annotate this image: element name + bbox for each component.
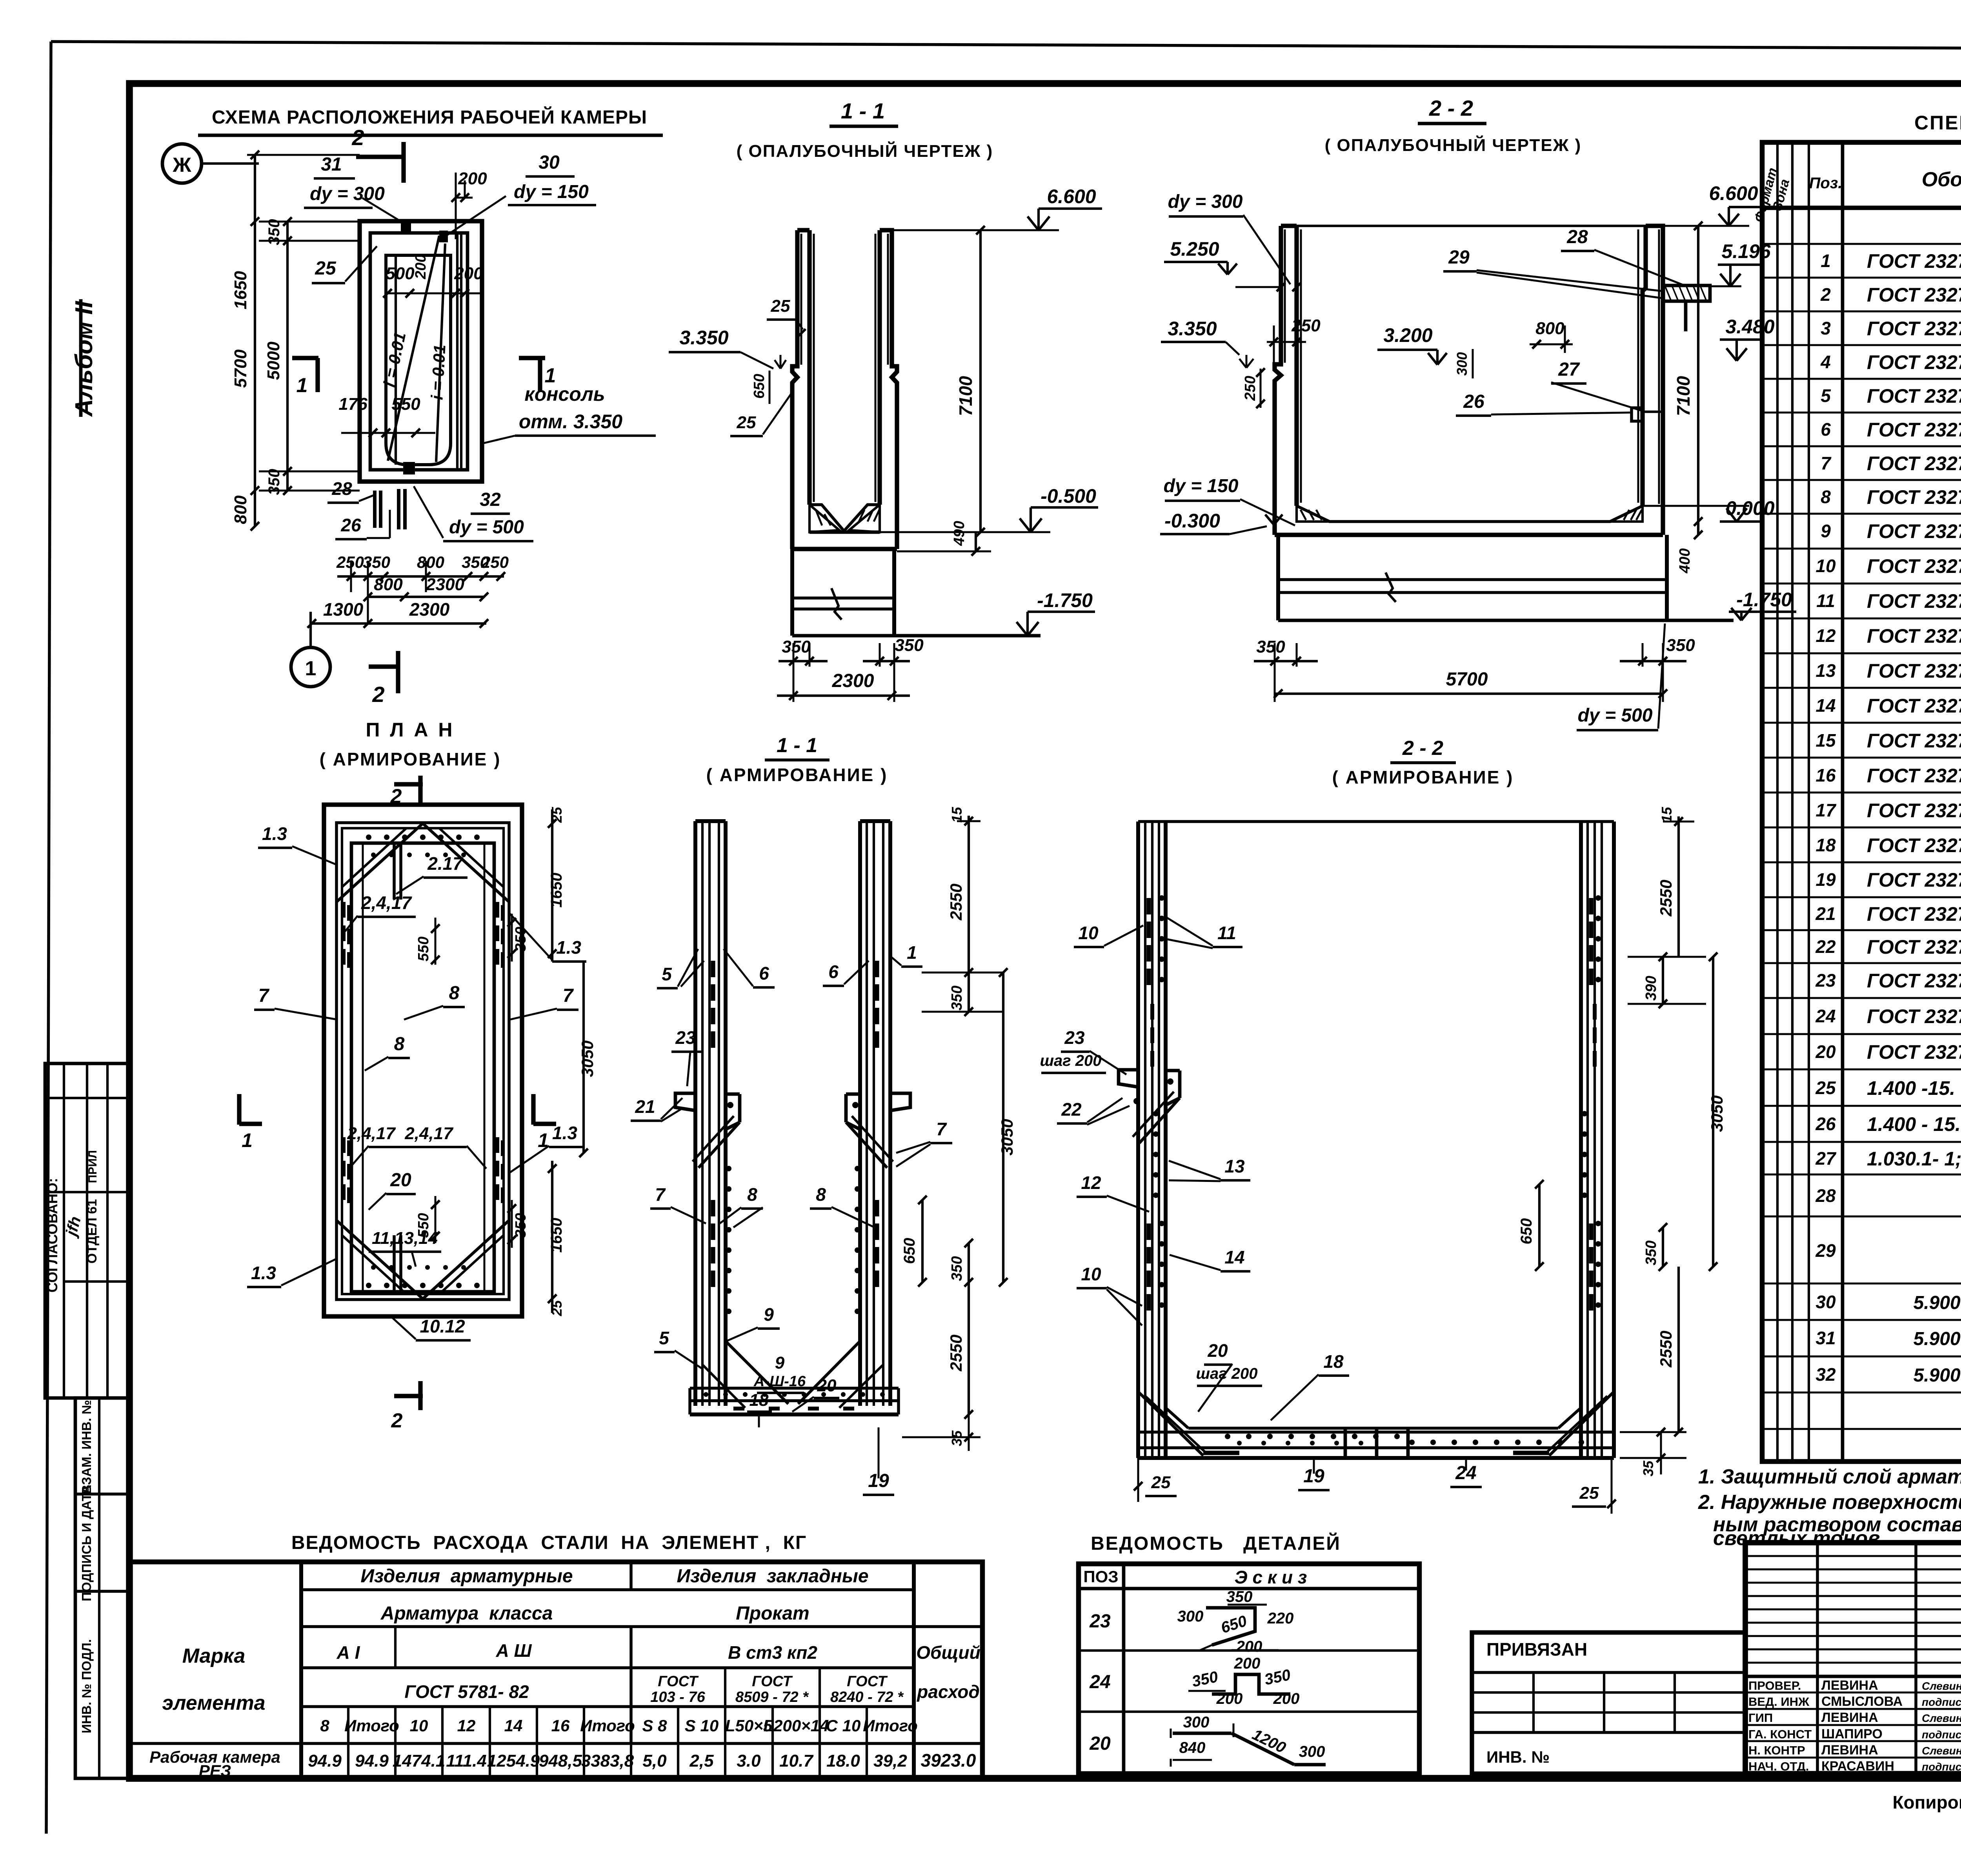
- svg-text:103 - 76: 103 - 76: [650, 1689, 705, 1705]
- privyazan box: [1472, 1632, 1745, 1774]
- svg-text:1.3: 1.3: [251, 1263, 276, 1283]
- svg-text:25: 25: [737, 413, 756, 432]
- spec rows: [1762, 243, 1961, 245]
- svg-text:ПОДПИСЬ И ДАТА: ПОДПИСЬ И ДАТА: [79, 1485, 94, 1601]
- slope line i=0.01 right: [436, 244, 445, 462]
- svg-text:подпись: подпись: [1922, 1729, 1961, 1741]
- svg-text:1: 1: [1821, 251, 1831, 271]
- svg-text:20: 20: [817, 1376, 837, 1395]
- svg-text:350: 350: [1256, 637, 1285, 656]
- svg-text:КРАСАВИН: КРАСАВИН: [1821, 1759, 1894, 1774]
- svg-text:( АРМИРОВАНИЕ ): ( АРМИРОВАНИЕ ): [706, 765, 888, 785]
- F dim 35: [1660, 1432, 1662, 1474]
- svg-text:ГОСТ 23279 - 85: ГОСТ 23279 - 85: [1867, 590, 1961, 612]
- svg-text:5700: 5700: [1446, 669, 1488, 690]
- svg-text:5.900-2: 5.900-2: [1914, 1292, 1961, 1313]
- svg-text:26: 26: [340, 515, 361, 535]
- svg-text:1650: 1650: [231, 271, 250, 309]
- svg-text:2 - 2: 2 - 2: [1402, 737, 1443, 760]
- svg-text:220: 220: [1267, 1610, 1294, 1627]
- svg-text:ЛЕВИНА: ЛЕВИНА: [1821, 1678, 1878, 1693]
- svg-text:Итого: Итого: [580, 1716, 635, 1735]
- svg-text:1300: 1300: [323, 599, 364, 620]
- svg-text:РЕЗ: РЕЗ: [199, 1761, 231, 1780]
- F console left inner step: [1166, 1069, 1180, 1073]
- svg-text:1650: 1650: [548, 1218, 565, 1253]
- svg-text:8: 8: [394, 1034, 405, 1054]
- svg-text:3.200: 3.200: [1383, 324, 1432, 346]
- svg-text:20: 20: [1089, 1733, 1111, 1754]
- svg-text:Ж: Ж: [173, 154, 192, 176]
- svg-text:ВЕДОМОСТЬ РАСХОДА СТАЛИ НА: ВЕДОМОСТЬ РАСХОДА СТАЛИ НА ЭЛЕМЕНТ , КГ: [291, 1532, 807, 1553]
- svg-text:2. Наружные поверхности стен р: 2. Наружные поверхности стен рабочей кам…: [1698, 1491, 1961, 1514]
- svg-text:3050: 3050: [998, 1119, 1016, 1155]
- approval table: [45, 1063, 129, 1398]
- D dim 3050 right: [582, 962, 585, 1153]
- svg-text:консоль: консоль: [524, 383, 605, 405]
- B dim 490: [975, 532, 977, 551]
- svg-text:Э с к и з: Э с к и з: [1235, 1567, 1307, 1587]
- E dim 350 mid: [968, 973, 970, 1012]
- svg-text:3.0: 3.0: [737, 1751, 761, 1771]
- svg-text:1. Защитный слой арматуры в ст: 1. Защитный слой арматуры в стенах приня…: [1698, 1465, 1961, 1488]
- svg-text:dy = 500: dy = 500: [449, 517, 524, 538]
- F left wall lines: [1136, 822, 1140, 1458]
- D top rebar dots: [366, 834, 371, 840]
- svg-text:3: 3: [1821, 318, 1831, 338]
- svg-text:490: 490: [951, 521, 968, 546]
- svg-text:ГОСТ 23279 - 85: ГОСТ 23279 - 85: [1867, 730, 1961, 752]
- svg-text:550: 550: [391, 394, 420, 414]
- E slab diagonals: [726, 1341, 788, 1404]
- svg-text:ГОСТ 23279 - 85: ГОСТ 23279 - 85: [1867, 660, 1961, 682]
- svg-text:СХЕМА РАСПОЛОЖЕНИЯ РАБОЧЕЙ КАМ: СХЕМА РАСПОЛОЖЕНИЯ РАБОЧЕЙ КАМЕРЫ: [212, 106, 647, 128]
- svg-text:300: 300: [1454, 352, 1470, 376]
- svg-text:350: 350: [1666, 636, 1695, 655]
- svg-text:6: 6: [1821, 419, 1831, 440]
- svg-text:350: 350: [949, 1256, 965, 1281]
- svg-text:2.17: 2.17: [427, 853, 464, 874]
- C floor hatch right: [1610, 506, 1643, 522]
- svg-text:8509 - 72 *: 8509 - 72 *: [735, 1689, 809, 1705]
- svg-text:расход: расход: [916, 1681, 980, 1702]
- C slab bottom: [1275, 533, 1663, 537]
- svg-text:2,4,17 2,4,17: 2,4,17 2,4,17: [347, 1124, 454, 1143]
- svg-text:2550: 2550: [947, 883, 965, 920]
- svg-text:Арматура класса: Арматура класса: [380, 1603, 553, 1624]
- svg-text:39,2: 39,2: [873, 1751, 907, 1771]
- svg-text:11: 11: [1816, 591, 1835, 611]
- svg-text:А-Ш-16: А-Ш-16: [753, 1373, 806, 1390]
- svg-text:800: 800: [1535, 319, 1564, 338]
- E dim 35: [968, 1414, 970, 1451]
- svg-text:8: 8: [449, 983, 460, 1003]
- svg-text:32: 32: [1815, 1364, 1836, 1385]
- svg-text:500: 500: [386, 264, 415, 283]
- detail sketch 23: [1206, 1608, 1255, 1645]
- svg-text:СМЫСЛОВА: СМЫСЛОВА: [1821, 1694, 1903, 1709]
- section mark 1 right: [519, 356, 545, 360]
- svg-text:12: 12: [457, 1716, 476, 1735]
- svg-text:21: 21: [635, 1096, 655, 1117]
- F dim right 15 2550 390: [1663, 821, 1694, 823]
- svg-text:ВЕД. ИНЖ: ВЕД. ИНЖ: [1748, 1695, 1810, 1709]
- svg-text:ГОСТ 23279 - 85: ГОСТ 23279 - 85: [1867, 419, 1961, 441]
- svg-text:7100: 7100: [1673, 376, 1694, 416]
- svg-text:20: 20: [1207, 1340, 1228, 1361]
- svg-text:9: 9: [764, 1304, 774, 1325]
- svg-text:ГОСТ 23279 - 85: ГОСТ 23279 - 85: [1867, 520, 1961, 542]
- spec rows 30-32: [1762, 1319, 1961, 1321]
- D left wall bar clusters: [342, 902, 346, 918]
- svg-text:1.3: 1.3: [556, 937, 581, 958]
- svg-text:550: 550: [415, 936, 432, 961]
- svg-text:7: 7: [655, 1184, 666, 1205]
- svg-text:300: 300: [1177, 1608, 1204, 1625]
- svg-text:6.600: 6.600: [1709, 182, 1758, 204]
- F dim 2550 lower: [1677, 1267, 1680, 1432]
- B floor hatch left: [810, 505, 839, 532]
- svg-text:10: 10: [410, 1716, 428, 1735]
- svg-text:ПОЗ: ПОЗ: [1083, 1567, 1118, 1586]
- section mark 1 left: [292, 356, 318, 360]
- svg-text:ГОСТ 23279 - 85: ГОСТ 23279 - 85: [1867, 765, 1961, 787]
- svg-text:29: 29: [1815, 1240, 1836, 1261]
- E dim 650: [921, 1200, 924, 1282]
- svg-text:ВЕДОМОСТЬ ДЕТАЛЕЙ: ВЕДОМОСТЬ ДЕТАЛЕЙ: [1091, 1532, 1341, 1554]
- svg-text:ГОСТ 5781- 82: ГОСТ 5781- 82: [404, 1681, 529, 1702]
- svg-text:5: 5: [662, 964, 672, 984]
- svg-text:СОГЛАСОВАНО:: СОГЛАСОВАНО:: [44, 1178, 60, 1292]
- svg-text:S 10: S 10: [685, 1716, 719, 1735]
- svg-text:1474.1: 1474.1: [393, 1751, 446, 1771]
- svg-text:3050: 3050: [578, 1040, 597, 1077]
- svg-text:Изделия арматурные: Изделия арматурные: [360, 1566, 573, 1587]
- svg-text:16: 16: [1815, 765, 1836, 785]
- svg-text:27: 27: [1558, 359, 1580, 380]
- plan console ring: [370, 233, 468, 470]
- svg-text:7: 7: [1821, 453, 1832, 473]
- svg-text:20: 20: [390, 1170, 411, 1191]
- svg-text:ГОСТ 23279 - 85: ГОСТ 23279 - 85: [1867, 625, 1961, 647]
- F left wall bar marks: [1146, 898, 1151, 914]
- svg-text:94.9: 94.9: [308, 1751, 342, 1771]
- svg-text:3383,8: 3383,8: [581, 1751, 634, 1771]
- svg-text:250: 250: [481, 553, 509, 571]
- svg-text:7: 7: [258, 985, 270, 1006]
- D dim 1650 25 right top: [551, 809, 553, 962]
- svg-text:dy = 500: dy = 500: [1578, 705, 1653, 726]
- B right wall: [880, 230, 897, 549]
- svg-text:C 10: C 10: [826, 1716, 861, 1735]
- sheet thin border: [51, 42, 1961, 50]
- svg-text:30: 30: [1815, 1292, 1836, 1312]
- D dim 550 350 first: [435, 918, 437, 965]
- svg-text:ГОСТ 23279 - 85: ГОСТ 23279 - 85: [1867, 284, 1961, 306]
- svg-text:18: 18: [1323, 1351, 1344, 1372]
- F slab dots: [1225, 1434, 1230, 1439]
- svg-text:2 - 2: 2 - 2: [1429, 96, 1473, 120]
- svg-text:S 8: S 8: [642, 1716, 667, 1735]
- svg-text:А I: А I: [337, 1642, 360, 1663]
- svg-text:200: 200: [1236, 1638, 1262, 1655]
- E console left anchor diagonals: [699, 1122, 740, 1168]
- svg-text:650: 650: [1518, 1218, 1535, 1245]
- svg-text:ШАПИРО: ШАПИРО: [1821, 1727, 1883, 1741]
- B foundation: [790, 549, 794, 636]
- svg-text:5,0: 5,0: [642, 1751, 667, 1771]
- svg-text:светлых тонов.: светлых тонов.: [1713, 1527, 1886, 1550]
- svg-text:ЛЕВИНА: ЛЕВИНА: [1821, 1710, 1878, 1725]
- B dim 350 350: [779, 660, 828, 662]
- svg-text:200: 200: [458, 169, 487, 188]
- F top line: [1138, 820, 1614, 823]
- svg-text:2300: 2300: [832, 671, 874, 691]
- svg-text:350: 350: [513, 927, 529, 951]
- F dim 350: [1662, 1227, 1664, 1267]
- svg-text:650: 650: [901, 1238, 918, 1264]
- svg-text:12: 12: [1081, 1172, 1101, 1193]
- E dim 3050: [1002, 973, 1004, 1282]
- F slab center ticks: [1344, 1429, 1347, 1458]
- svg-text:отм. 3.350: отм. 3.350: [519, 411, 622, 433]
- svg-text:10: 10: [1078, 923, 1099, 943]
- svg-text:5: 5: [659, 1328, 669, 1348]
- spec materials row: [1762, 1428, 1961, 1430]
- svg-text:1: 1: [242, 1129, 253, 1151]
- svg-text:1 - 1: 1 - 1: [841, 98, 885, 123]
- svg-text:300: 300: [1299, 1743, 1325, 1760]
- detail sketch 24: [1212, 1674, 1290, 1694]
- svg-text:17: 17: [1815, 800, 1837, 820]
- svg-text:14: 14: [1815, 695, 1835, 716]
- svg-text:( АРМИРОВАНИЕ ): ( АРМИРОВАНИЕ ): [320, 749, 501, 769]
- svg-text:21: 21: [1815, 903, 1835, 924]
- svg-text:-0.500: -0.500: [1041, 485, 1096, 507]
- svg-text:8: 8: [747, 1184, 757, 1205]
- C dim 400: [1697, 522, 1699, 535]
- svg-text:31: 31: [321, 154, 342, 175]
- svg-text:1.3: 1.3: [552, 1123, 577, 1143]
- svg-text:25: 25: [549, 807, 565, 823]
- svg-text:ГОСТ 23279 - 85: ГОСТ 23279 - 85: [1867, 695, 1961, 717]
- svg-text:25: 25: [1815, 1078, 1836, 1098]
- C elevation 6.600: [1663, 225, 1749, 227]
- svg-text:СПЕЦИФИКАЦИЯ К РАБОЧЕЙ КАМЕР: СПЕЦИФИКАЦИЯ К РАБОЧЕЙ КАМЕРЕ РЕЗ: [1914, 111, 1961, 134]
- svg-text:ГОСТ 23279 - 85: ГОСТ 23279 - 85: [1867, 1005, 1961, 1027]
- svg-text:800: 800: [374, 575, 403, 594]
- svg-text:23: 23: [675, 1027, 696, 1048]
- F right wall lines: [1579, 822, 1583, 1458]
- F console bracket left outer hook: [1119, 1070, 1138, 1087]
- E left wall lines: [693, 821, 697, 1406]
- svg-text:ГА. КОНСТ: ГА. КОНСТ: [1748, 1727, 1812, 1741]
- svg-text:6.600: 6.600: [1047, 185, 1096, 207]
- svg-text:3.350: 3.350: [1168, 318, 1217, 340]
- svg-text:28: 28: [1815, 1185, 1836, 1206]
- E right wall bar marks: [875, 961, 879, 977]
- svg-text:400: 400: [1677, 548, 1693, 573]
- plan inner wall lines: [395, 255, 397, 465]
- svg-text:3923.0: 3923.0: [921, 1750, 976, 1771]
- svg-text:5700: 5700: [231, 349, 250, 388]
- B slab bottom: [792, 547, 897, 551]
- title signatures: [1745, 1692, 1961, 1694]
- C bracket poz26 27: [1632, 408, 1643, 421]
- svg-text:32: 32: [480, 489, 501, 510]
- bottom dim chain 2: [368, 596, 484, 598]
- svg-text:ОТДЕЛ 61: ОТДЕЛ 61: [85, 1199, 100, 1263]
- svg-text:ГОСТ 23279 - 85: ГОСТ 23279 - 85: [1867, 869, 1961, 891]
- svg-text:26: 26: [1463, 391, 1484, 412]
- B dim 2300: [777, 694, 910, 697]
- svg-text:8240 - 72 *: 8240 - 72 *: [830, 1689, 904, 1705]
- steel GOST row: [724, 1668, 726, 1707]
- svg-text:ГОСТ 23279 - 85: ГОСТ 23279 - 85: [1867, 250, 1961, 272]
- svg-text:11,13,14: 11,13,14: [372, 1229, 438, 1248]
- svg-text:3050: 3050: [1708, 1095, 1726, 1132]
- C floor hatch left: [1297, 506, 1330, 522]
- D outer rect: [324, 805, 522, 1316]
- svg-text:Итого: Итого: [344, 1716, 399, 1735]
- svg-text:ГИП: ГИП: [1748, 1711, 1773, 1725]
- svg-text:28: 28: [1566, 227, 1588, 247]
- C channel bracket poz28: [1663, 285, 1710, 301]
- svg-text:111.4: 111.4: [446, 1751, 487, 1771]
- svg-text:2550: 2550: [1657, 880, 1675, 916]
- E left wall bar marks: [711, 961, 715, 977]
- B left wall: [807, 230, 811, 505]
- svg-text:200: 200: [1234, 1655, 1261, 1672]
- detail sketch 20: [1173, 1732, 1232, 1735]
- svg-text:НАЧ. ОТД.: НАЧ. ОТД.: [1748, 1760, 1809, 1773]
- svg-text:А Ш: А Ш: [495, 1640, 532, 1661]
- svg-text:350: 350: [1643, 1240, 1659, 1265]
- svg-text:30: 30: [538, 152, 560, 173]
- svg-text:25: 25: [1151, 1473, 1171, 1492]
- svg-text:1650: 1650: [548, 873, 565, 908]
- svg-text:ГОСТ 23279 - 85: ГОСТ 23279 - 85: [1867, 834, 1961, 856]
- svg-text:ГОСТ 23279 - 85: ГОСТ 23279 - 85: [1867, 936, 1961, 958]
- svg-text:300: 300: [1183, 1714, 1210, 1731]
- svg-text:10.7: 10.7: [779, 1751, 814, 1771]
- spec row 28 channel: [1762, 1216, 1961, 1218]
- svg-text:350: 350: [782, 637, 811, 656]
- svg-text:24: 24: [1815, 1006, 1835, 1026]
- svg-text:ИНВ. № ПОДЛ.: ИНВ. № ПОДЛ.: [79, 1639, 94, 1733]
- svg-text:2550: 2550: [947, 1334, 965, 1371]
- svg-text:2: 2: [391, 1409, 403, 1432]
- bottom dim chain 1: [337, 575, 504, 578]
- D wall rect: [337, 823, 509, 1300]
- svg-text:14: 14: [504, 1716, 523, 1735]
- D inner vertical bars: [393, 843, 396, 900]
- svg-text:350: 350: [513, 1213, 529, 1238]
- svg-text:200: 200: [413, 254, 429, 279]
- D section flag 2 top: [394, 782, 423, 786]
- svg-text:7100: 7100: [955, 376, 976, 416]
- svg-text:25: 25: [771, 296, 790, 316]
- svg-text:15: 15: [949, 807, 965, 823]
- svg-text:840: 840: [1179, 1739, 1206, 1756]
- svg-text:35: 35: [1640, 1460, 1656, 1476]
- svg-text:Прокат: Прокат: [736, 1603, 809, 1624]
- steel table outer: [129, 1562, 982, 1778]
- D bottom rebar dots: [366, 1283, 371, 1288]
- svg-text:12: 12: [1815, 625, 1836, 646]
- plan inner opening: [386, 255, 451, 465]
- svg-text:3.480: 3.480: [1725, 316, 1774, 338]
- stamp column: [75, 1398, 129, 1778]
- svg-text:13: 13: [1224, 1156, 1245, 1176]
- svg-text:250: 250: [1242, 376, 1259, 401]
- section mark 2 bottom: [369, 664, 399, 669]
- svg-text:ГОСТ 23279 - 85: ГОСТ 23279 - 85: [1867, 385, 1961, 407]
- svg-text:dy = 300: dy = 300: [310, 184, 385, 204]
- C top edge line: [1297, 225, 1646, 227]
- svg-text:35: 35: [949, 1430, 965, 1446]
- svg-text:25: 25: [1579, 1483, 1599, 1503]
- svg-text:dy = 150: dy = 150: [1164, 476, 1239, 496]
- svg-text:176: 176: [338, 394, 367, 414]
- D corner diagonals: [337, 823, 424, 902]
- svg-text:15: 15: [1815, 730, 1836, 751]
- svg-text:23: 23: [1064, 1027, 1085, 1048]
- B wall aux lines: [800, 234, 802, 365]
- svg-text:элемента: элемента: [162, 1692, 265, 1714]
- title block left grid: [1816, 1543, 1819, 1774]
- svg-text:1: 1: [305, 657, 317, 680]
- B dim 7100 vertical: [979, 230, 982, 532]
- svg-text:шаг 200: шаг 200: [1196, 1365, 1257, 1382]
- E right wall lines: [858, 821, 862, 1406]
- svg-text:5.250: 5.250: [1170, 238, 1219, 260]
- svg-text:1 - 1: 1 - 1: [777, 734, 817, 757]
- D section flag 2 bottom: [394, 1394, 423, 1398]
- svg-text:25: 25: [549, 1300, 565, 1316]
- svg-text:26: 26: [1815, 1114, 1836, 1134]
- E bottom slab: [690, 1387, 899, 1390]
- E dim 350 lower: [968, 1243, 970, 1282]
- svg-text:14: 14: [1224, 1247, 1244, 1267]
- svg-text:Слевин: Слевин: [1922, 1680, 1961, 1692]
- svg-text:ВЗАМ. ИНВ. №: ВЗАМ. ИНВ. №: [79, 1400, 94, 1494]
- svg-text:23: 23: [1089, 1611, 1111, 1632]
- svg-text:ГОСТ: ГОСТ: [847, 1673, 888, 1690]
- gland 30 blob: [439, 231, 448, 242]
- B foundation break mark: [831, 588, 842, 620]
- svg-text:dy = 150: dy = 150: [514, 182, 589, 202]
- svg-text:1254.9: 1254.9: [487, 1751, 540, 1771]
- svg-text:ГОСТ 23279 - 85: ГОСТ 23279 - 85: [1867, 318, 1961, 340]
- svg-text:Общий: Общий: [916, 1642, 980, 1663]
- svg-text:200: 200: [1273, 1690, 1300, 1707]
- svg-text:8: 8: [816, 1184, 826, 1205]
- svg-text:22: 22: [1815, 936, 1836, 957]
- slope line i=0.01 left: [388, 236, 439, 461]
- svg-text:ГОСТ 23279 - 85: ГОСТ 23279 - 85: [1867, 486, 1961, 508]
- E dim 2550 lower: [968, 1282, 970, 1414]
- E wall dots left: [726, 1166, 731, 1171]
- svg-text:1.400 -15. В1 . 130: 1.400 -15. В1 . 130: [1867, 1077, 1961, 1099]
- svg-text:29: 29: [1448, 247, 1470, 268]
- F dim 650: [1538, 1184, 1541, 1267]
- svg-text:шаг 200: шаг 200: [1040, 1052, 1101, 1069]
- axis circle 1 bottom: [291, 647, 330, 687]
- E slab bar hooks: [733, 1407, 744, 1411]
- svg-text:28: 28: [331, 478, 352, 499]
- svg-text:-1.750: -1.750: [1037, 589, 1093, 611]
